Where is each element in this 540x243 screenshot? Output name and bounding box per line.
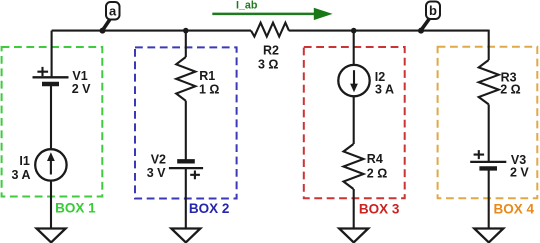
svg-text:V1: V1 — [72, 69, 87, 83]
junction node R1 branch — [183, 28, 189, 34]
node b — [418, 28, 424, 34]
wire to R1 — [185, 31, 187, 57]
svg-text:R1: R1 — [199, 69, 215, 83]
wire top horizontal left segment — [52, 30, 251, 32]
svg-text:I1: I1 — [19, 154, 29, 168]
svg-text:R4: R4 — [367, 152, 383, 166]
node a — [100, 28, 106, 34]
wire I1 to ground — [50, 181, 52, 229]
ground 1 — [37, 229, 66, 243]
wire R4 to ground — [353, 189, 355, 229]
battery V3 — [470, 161, 506, 163]
BOX 4 dashed outline — [438, 47, 538, 199]
svg-text:3 A: 3 A — [12, 168, 31, 182]
svg-text:2 Ω: 2 Ω — [367, 166, 387, 180]
resistor R4 — [344, 144, 364, 189]
resistor R1 — [176, 57, 195, 101]
wire V1 top — [51, 31, 53, 78]
BOX 2 dashed outline — [135, 47, 237, 198]
svg-text:2 V: 2 V — [72, 82, 91, 96]
BOX 3 dashed outline — [304, 47, 405, 198]
svg-text:2 Ω: 2 Ω — [500, 83, 520, 97]
wire R1 to V2 — [185, 101, 187, 162]
ground 4 — [474, 229, 503, 243]
svg-text:1 Ω: 1 Ω — [199, 83, 219, 97]
battery V2 — [177, 159, 195, 163]
svg-text:BOX 3: BOX 3 — [359, 202, 400, 217]
resistor R2 — [251, 23, 289, 37]
ground 3 — [339, 229, 368, 243]
svg-text:3 A: 3 A — [375, 82, 394, 96]
svg-text:2 V: 2 V — [510, 165, 529, 179]
wire V1 to I1 — [50, 84, 52, 150]
svg-text:BOX 1: BOX 1 — [55, 201, 96, 216]
svg-text:3 Ω: 3 Ω — [258, 58, 278, 72]
svg-text:BOX 2: BOX 2 — [189, 201, 230, 216]
battery V1 — [33, 76, 69, 78]
current source I1 — [35, 149, 66, 180]
svg-text:a: a — [109, 4, 117, 19]
wire R3 to V3 — [488, 104, 490, 161]
wire V3 to ground — [488, 168, 490, 228]
BOX 1 dashed outline — [2, 47, 103, 197]
ground 2 — [171, 229, 200, 243]
wire I2 to R4 — [353, 96, 355, 144]
svg-text:I_ab: I_ab — [236, 0, 258, 12]
svg-text:3 V: 3 V — [147, 166, 166, 180]
wire top right down to R3 — [488, 30, 490, 60]
current arrow I_ab — [212, 13, 316, 16]
svg-text:R2: R2 — [263, 44, 279, 58]
wire V2 to ground — [185, 168, 187, 228]
junction node I2 branch — [351, 28, 357, 34]
svg-text:BOX 4: BOX 4 — [494, 201, 535, 216]
svg-text:V2: V2 — [151, 152, 166, 166]
svg-text:b: b — [429, 3, 437, 18]
wire top horizontal right segment — [289, 30, 489, 32]
resistor R3 — [479, 60, 499, 104]
current source I2 — [338, 65, 369, 96]
wire to I2 — [353, 31, 355, 65]
